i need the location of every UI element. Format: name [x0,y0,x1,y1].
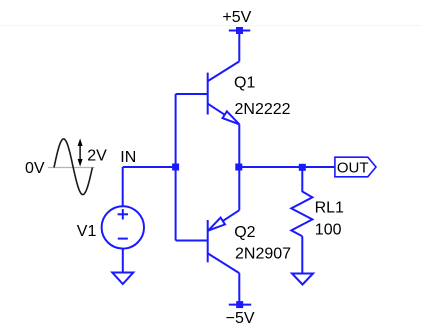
svg-text:IN: IN [120,149,136,166]
sine wave annotation axis [48,167,95,169]
ground below RL1 [292,274,313,285]
ground below V1 [112,273,133,285]
wire IN [123,166,176,168]
wire output to port [239,166,335,168]
svg-text:+5V: +5V [222,9,251,26]
svg-text:−5V: −5V [226,310,255,327]
power -5V [229,301,251,308]
svg-text:100: 100 [315,222,342,239]
svg-text:V1: V1 [77,223,97,240]
amplitude arrow [78,139,83,167]
svg-text:0V: 0V [25,160,45,177]
svg-text:Q2: Q2 [234,224,255,241]
node junction at emitters [235,164,242,171]
svg-text:Q1: Q1 [234,75,255,92]
port OUT [335,157,376,177]
svg-text:2N2222: 2N2222 [235,101,291,118]
wire Q1 base [176,93,208,95]
svg-text:RL1: RL1 [315,200,344,217]
wire Q1 emitter to output node [238,124,240,167]
node junction at RL1 [299,164,306,171]
svg-text:2N2907: 2N2907 [235,246,291,263]
transistor Q2 [208,167,240,273]
wire +5V to Q1 collector [238,33,240,61]
transistor Q1 [208,61,240,124]
voltage source V1 [102,167,144,273]
wire Q2 collector to -5V [238,273,240,302]
svg-text:2V: 2V [87,147,107,164]
wire base bus vertical [175,94,177,241]
faint horizontal rule [0,25,422,27]
wire Q2 base [176,240,208,242]
node junction at input [172,164,179,171]
svg-text:OUT: OUT [337,159,369,176]
resistor RL1 [291,167,312,274]
power +5V [229,27,251,34]
sine wave curve [54,139,92,195]
